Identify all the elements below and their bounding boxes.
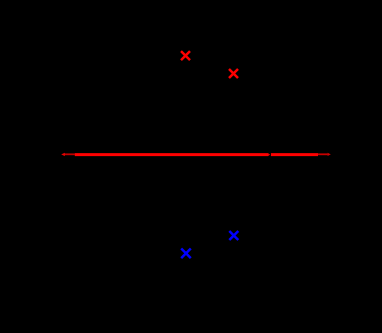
wire: real-axis locus segment right (bright red) [271,153,318,156]
arrow: left direction arrow (dim red, pointing left) [61,153,75,156]
pole marker: red X upper-left [181,51,190,60]
wire: real-axis locus segment left (bright red, tapered arrow tip at right end) [75,153,270,156]
pole marker: red X upper-right [229,69,238,78]
arrow: right direction arrow (dim red, pointing right) [318,153,331,156]
pole marker: blue X lower-right [229,231,238,240]
pole marker: blue X lower-left [181,249,191,259]
